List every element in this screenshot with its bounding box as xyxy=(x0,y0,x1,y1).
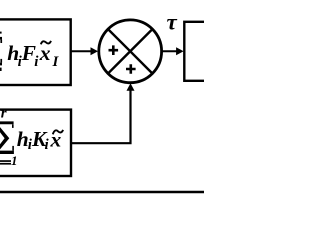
svg-text:x: x xyxy=(39,41,51,65)
svg-text:τ: τ xyxy=(167,10,178,35)
svg-text:I: I xyxy=(52,54,60,70)
svg-text:1: 1 xyxy=(11,153,18,168)
svg-text:r: r xyxy=(1,106,7,122)
